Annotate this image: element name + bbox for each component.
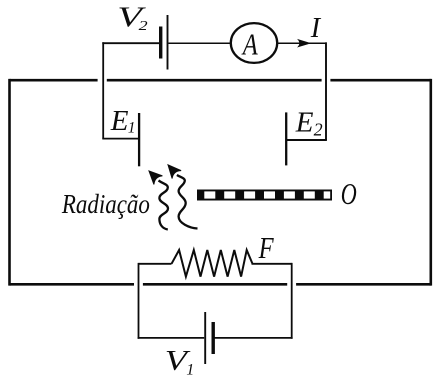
- radiation wavy arrow (right): [177, 175, 198, 229]
- wire bottom loop right vertical: [291, 263, 293, 339]
- wire bottom loop top-left segment: [139, 263, 172, 265]
- current arrowhead: [297, 39, 311, 48]
- wire left vertical from top corner: [102, 42, 104, 138]
- svg-text:I: I: [310, 13, 322, 44]
- battery V1 thin long plate: [204, 312, 206, 364]
- battery V2 thin long plate: [167, 15, 169, 70]
- ammeter U1: [231, 23, 277, 63]
- wire top-right corner down to E2 lead level: [325, 42, 327, 140]
- wire from top-left corner to battery V2: [102, 42, 159, 44]
- svg-text:E: E: [110, 105, 129, 137]
- svg-text:A: A: [241, 26, 258, 61]
- battery V2 thick short plate: [159, 27, 162, 59]
- electrode E2: [285, 112, 287, 165]
- svg-text:F: F: [258, 230, 275, 265]
- wire ammeter to top-right corner: [277, 42, 326, 44]
- svg-text:Radiação: Radiação: [61, 189, 150, 219]
- radiation arrowhead (right): [168, 165, 181, 179]
- wire E2 horizontal lead: [286, 139, 327, 141]
- electrode E1: [138, 113, 140, 166]
- svg-text:1: 1: [128, 119, 136, 136]
- wire battery V1 to bottom-right: [214, 337, 292, 339]
- svg-text:1: 1: [186, 361, 194, 378]
- grating bar O: [197, 190, 332, 201]
- resistor F: [172, 250, 253, 277]
- svg-text:E: E: [295, 106, 314, 138]
- svg-text:2: 2: [314, 119, 323, 139]
- svg-text:2: 2: [139, 19, 148, 34]
- wire bottom loop left vertical: [138, 263, 140, 339]
- radiation wavy arrow (left): [159, 181, 169, 230]
- wire battery V2 to ammeter: [168, 42, 230, 44]
- svg-text:O: O: [341, 176, 357, 211]
- battery V1 thick short plate: [211, 322, 214, 354]
- wire bottom loop top-right segment: [252, 263, 292, 265]
- wire bottom-left to battery V1: [138, 337, 205, 339]
- wire E1 horizontal lead: [102, 138, 139, 140]
- radiation arrowhead (left): [149, 171, 162, 184]
- vacuum tube enclosure: [10, 79, 431, 286]
